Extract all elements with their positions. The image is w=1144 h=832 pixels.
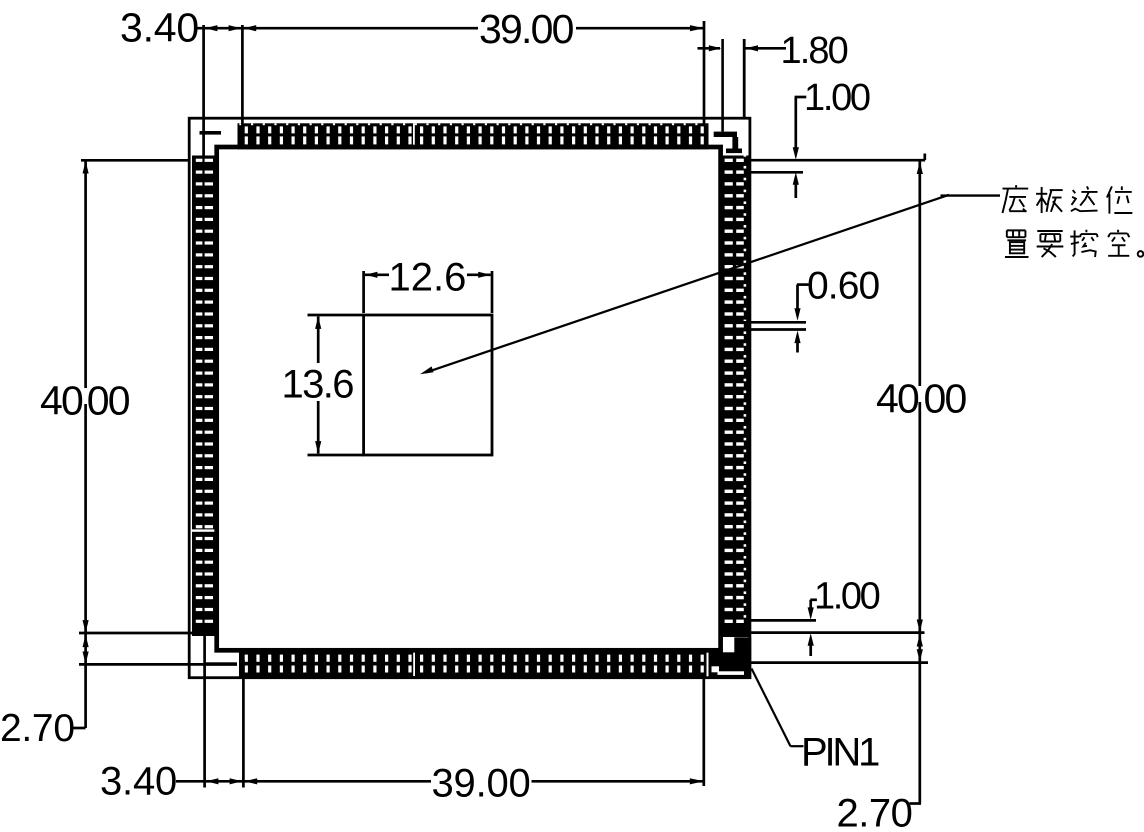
svg-text:00: 00	[87, 378, 130, 424]
svg-text:00: 00	[924, 376, 967, 422]
svg-text:39.00: 39.00	[479, 6, 574, 52]
svg-text:39.00: 39.00	[432, 762, 531, 806]
svg-text:3.40: 3.40	[120, 5, 199, 51]
svg-text:2.70: 2.70	[0, 707, 75, 750]
svg-text:40: 40	[876, 376, 919, 422]
svg-text:1.00: 1.00	[814, 576, 880, 618]
svg-text:12.6: 12.6	[389, 255, 467, 299]
svg-text:13.6: 13.6	[282, 363, 354, 407]
svg-text:0.60: 0.60	[807, 265, 880, 308]
svg-text:1.80: 1.80	[781, 30, 848, 72]
svg-text:1.00: 1.00	[804, 77, 870, 119]
svg-text:3.40: 3.40	[100, 760, 177, 804]
svg-text:PIN1: PIN1	[801, 731, 879, 775]
svg-text:2.70: 2.70	[837, 792, 913, 832]
svg-text:40: 40	[40, 378, 83, 424]
